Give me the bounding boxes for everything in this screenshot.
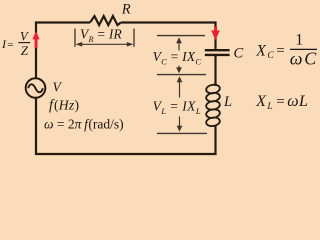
- tick line 1 (top of V_C span): [157, 35, 205, 37]
- V_R = IR annotation: right tick: [133, 29, 135, 47]
- wire: capacitor to inductor: [214, 56, 216, 87]
- svg-text:X: X: [255, 93, 267, 110]
- svg-text:X: X: [255, 42, 267, 59]
- AC source sine wave: [28, 84, 43, 92]
- wire: top segment resistor to right corner, down to capacitor: [121, 23, 216, 50]
- svg-text:f(Hz): f(Hz): [49, 98, 79, 114]
- svg-text:VC = IXC: VC = IXC: [153, 49, 202, 67]
- svg-text:ωL: ωL: [287, 93, 308, 110]
- V_L up arrow: [177, 76, 183, 97]
- red current arrow (down) on right wire: [211, 26, 220, 40]
- tick line 3 (bottom of V_L span): [157, 132, 207, 134]
- red current arrow (up) on left wire: [32, 31, 39, 48]
- tick line 2 (between V_C and V_L): [157, 74, 206, 76]
- svg-text:C: C: [234, 46, 244, 62]
- svg-text:Z: Z: [21, 43, 29, 58]
- svg-text:=: =: [276, 43, 284, 59]
- V_L down arrow: [177, 117, 183, 132]
- svg-text:ωC: ωC: [290, 48, 319, 68]
- V_C down arrow: [176, 66, 182, 74]
- svg-text:ω = 2π f(rad/s): ω = 2π f(rad/s): [44, 117, 124, 132]
- inductor L (coil of 5 loops): [206, 84, 221, 127]
- svg-text:R: R: [121, 1, 131, 17]
- svg-text:L: L: [266, 102, 272, 112]
- V_R = IR annotation: left tick: [74, 29, 76, 47]
- svg-text:1: 1: [295, 32, 303, 49]
- svg-text:=: =: [276, 94, 284, 110]
- wire: inductor to bottom, bottom wire, up to source bottom: [36, 98, 216, 154]
- svg-text:=: =: [7, 39, 13, 51]
- svg-text:VR = IR: VR = IR: [80, 27, 123, 44]
- svg-text:C: C: [267, 51, 274, 61]
- svg-text:VL = IXL: VL = IXL: [153, 99, 201, 117]
- V_R double-headed arrow: [76, 42, 134, 47]
- V_C up arrow: [176, 37, 182, 50]
- resistor R: [90, 16, 121, 25]
- AC source circle: [26, 78, 46, 98]
- wire: left vertical + top-left segment: [36, 23, 90, 79]
- capacitor C: [205, 50, 230, 55]
- svg-text:L: L: [223, 94, 232, 110]
